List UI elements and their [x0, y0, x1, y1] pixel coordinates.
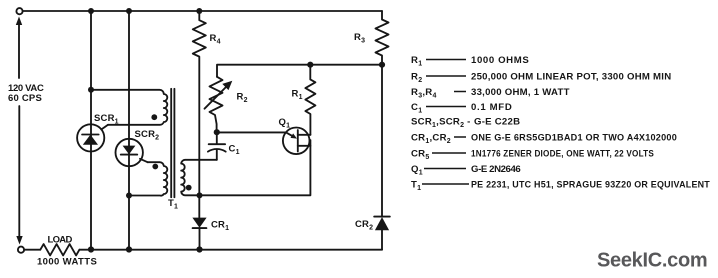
transformer T1 core [171, 89, 174, 197]
svg-text:SCR1,SCR2 -: SCR1,SCR2 - [411, 117, 471, 130]
parts list row C1 [411, 102, 512, 115]
node top rail / SCR1 branch [88, 8, 94, 14]
svg-text:SeekIC.com: SeekIC.com [597, 250, 707, 272]
label 1000 WATTS [37, 257, 97, 268]
svg-text:LOAD: LOAD [48, 235, 73, 246]
svg-text:R1: R1 [292, 89, 303, 102]
parts list row R3 R4 [411, 87, 570, 100]
resistor R1 [305, 65, 315, 135]
svg-text:60 CPS: 60 CPS [8, 93, 42, 104]
svg-text:T1: T1 [168, 198, 178, 211]
node R2 / C1 / emitter junction [214, 129, 220, 135]
svg-text:R3,R4: R3,R4 [411, 87, 437, 100]
svg-text:1000 WATTS: 1000 WATTS [37, 257, 97, 268]
node bottom rail / CR1 [196, 246, 202, 252]
svg-text:250,000 OHM LINEAR POT, 3300 O: 250,000 OHM LINEAR POT, 3300 OHM MIN [471, 72, 671, 83]
node SCR1 cathode / winding tap [88, 87, 94, 93]
label R3 [354, 32, 365, 45]
svg-text:ONE G-E 6RS5GD1BAD1 OR TWO A4X: ONE G-E 6RS5GD1BAD1 OR TWO A4X102000 [471, 133, 677, 144]
wire B1 return [200, 140, 311, 195]
label SCR2 [135, 129, 160, 142]
svg-text:R3: R3 [354, 32, 365, 45]
node top rail / SCR2 branch [126, 8, 132, 14]
svg-text:R2: R2 [237, 92, 248, 105]
svg-text:R2: R2 [411, 72, 422, 85]
svg-text:T1: T1 [411, 180, 421, 193]
label Q1 [279, 117, 291, 130]
svg-text:1N1776 ZENER DIODE, ONE WATT,: 1N1776 ZENER DIODE, ONE WATT, 22 VOLTS [471, 149, 654, 160]
parts list row CR5 [411, 149, 654, 162]
svg-text:R1: R1 [411, 55, 422, 68]
wire inner rail [217, 65, 382, 77]
resistor R3 [376, 11, 389, 65]
potentiometer R2 [205, 77, 233, 132]
watermark SeekIC.com [597, 250, 707, 272]
label CR1 [211, 220, 229, 233]
label SCR1 [94, 113, 119, 126]
label 120 VAC 60 CPS [8, 83, 44, 104]
parts list row R1 [411, 55, 529, 68]
svg-text:R4: R4 [210, 33, 221, 46]
node SCR2 cathode / winding return [126, 193, 132, 199]
wire emitter [217, 131, 286, 133]
resistor R4 [193, 11, 206, 218]
node bottom rail / SCR2 [126, 246, 132, 252]
parts list row Q1 [411, 164, 521, 177]
node R4 / primary / B1 junction [197, 192, 203, 198]
svg-text:0.1 MFD: 0.1 MFD [471, 102, 512, 113]
svg-text:CR1: CR1 [211, 220, 229, 233]
svg-text:PE 2231, UTC H51, SPRAGUE 93Z2: PE 2231, UTC H51, SPRAGUE 93Z20 OR EQUIV… [471, 180, 710, 191]
SCR1 [77, 124, 108, 151]
svg-text:Q1: Q1 [279, 117, 291, 130]
SCR2 [116, 139, 148, 166]
svg-text:CR2: CR2 [355, 219, 373, 232]
svg-text:CR1,CR2: CR1,CR2 [411, 133, 451, 146]
svg-text:1000 OHMS: 1000 OHMS [471, 55, 529, 66]
wire SCR2 column [128, 11, 130, 249]
AC source terminal bottom [18, 247, 24, 253]
unijunction transistor Q1 [283, 128, 310, 155]
transformer T1 secondary winding lower [130, 162, 168, 195]
svg-text:SCR2: SCR2 [135, 129, 160, 142]
svg-text:33,000 OHM, 1 WATT: 33,000 OHM, 1 WATT [471, 87, 570, 98]
svg-text:CR5: CR5 [411, 149, 430, 162]
wire bottom rail [24, 248, 382, 250]
parts list row SCR1 SCR2 [411, 117, 520, 130]
parts list row CR1 CR2 [411, 133, 677, 146]
svg-text:C1: C1 [411, 102, 422, 115]
parts list row T1 [411, 180, 710, 193]
resistor LOAD [40, 244, 79, 255]
label R1 [292, 89, 303, 102]
diode CR2 [374, 65, 390, 250]
parts list row R2 [411, 72, 671, 85]
svg-text:G-E C22B: G-E C22B [474, 117, 520, 128]
node inner rail / R3 / CR2 [379, 62, 385, 68]
svg-text:C1: C1 [229, 144, 240, 157]
AC source arrow line [16, 17, 23, 245]
transformer T1 primary winding [181, 160, 217, 196]
wire top rail [23, 10, 382, 12]
node bottom rail / SCR1 [88, 246, 94, 252]
node top rail / R4 branch [196, 8, 202, 14]
label C1 [229, 144, 240, 157]
label R4 [210, 33, 221, 46]
label T1 [168, 198, 178, 211]
wire SCR1 column [90, 11, 92, 249]
label LOAD [48, 235, 73, 246]
label R2 [237, 92, 248, 105]
transformer T1 secondary winding upper [91, 90, 167, 125]
AC source terminal top [16, 8, 22, 14]
svg-text:Q1: Q1 [411, 164, 423, 177]
svg-text:SCR1: SCR1 [94, 113, 119, 126]
label CR2 [355, 219, 373, 232]
node inner rail / R1 [307, 62, 313, 68]
capacitor C1 [208, 132, 226, 160]
diode CR1 [192, 218, 206, 250]
svg-text:G-E 2N2646: G-E 2N2646 [471, 164, 521, 175]
